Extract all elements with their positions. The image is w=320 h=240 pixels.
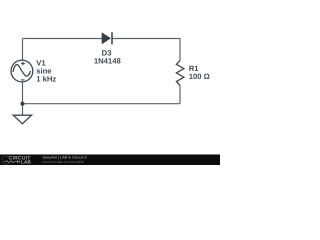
- node junction dot: [20, 102, 24, 106]
- D3 cathode bar: [111, 32, 113, 44]
- resistor R1 zigzag: [176, 61, 184, 86]
- svg-text:100 Ω: 100 Ω: [189, 72, 210, 81]
- wire: ground stem below node: [22, 104, 24, 115]
- wire: bottom horizontal from node to right corner: [23, 103, 181, 105]
- wire: R1 bottom lead down to bottom corner: [179, 85, 181, 103]
- D3 anode triangle: [102, 33, 110, 44]
- svg-text:1 kHz: 1 kHz: [36, 75, 56, 84]
- wire: top horizontal from V1 to diode anode: [23, 38, 103, 40]
- wire: left vertical from top corner down to V1 top terminal: [22, 39, 24, 61]
- wire: top horizontal from diode cathode to right corner: [112, 38, 180, 40]
- CircuitLab logo: resistor squiggle: [4, 160, 21, 163]
- wire: V1 bottom terminal down to bottom node: [22, 82, 24, 104]
- V1 sine waveform mark: [13, 65, 30, 77]
- V1 circle body: [11, 60, 33, 82]
- wire: right vertical from top corner down to R1 top lead: [179, 39, 181, 61]
- voltage source V1 (sine): [11, 60, 33, 82]
- CircuitLab logo: emblem arc: [2, 156, 9, 164]
- ground symbol: [13, 115, 31, 124]
- svg-text:LAB: LAB: [21, 160, 32, 165]
- watermark bar: [0, 154, 220, 155]
- diode D3: [102, 32, 112, 44]
- V1 minus polarity mark: [21, 79, 25, 81]
- svg-text:ntto://circuitlab.com/c/bud23h: ntto://circuitlab.com/c/bud23h: [42, 160, 84, 164]
- V1 plus polarity mark: [21, 62, 25, 66]
- svg-text:1N4148: 1N4148: [94, 57, 122, 66]
